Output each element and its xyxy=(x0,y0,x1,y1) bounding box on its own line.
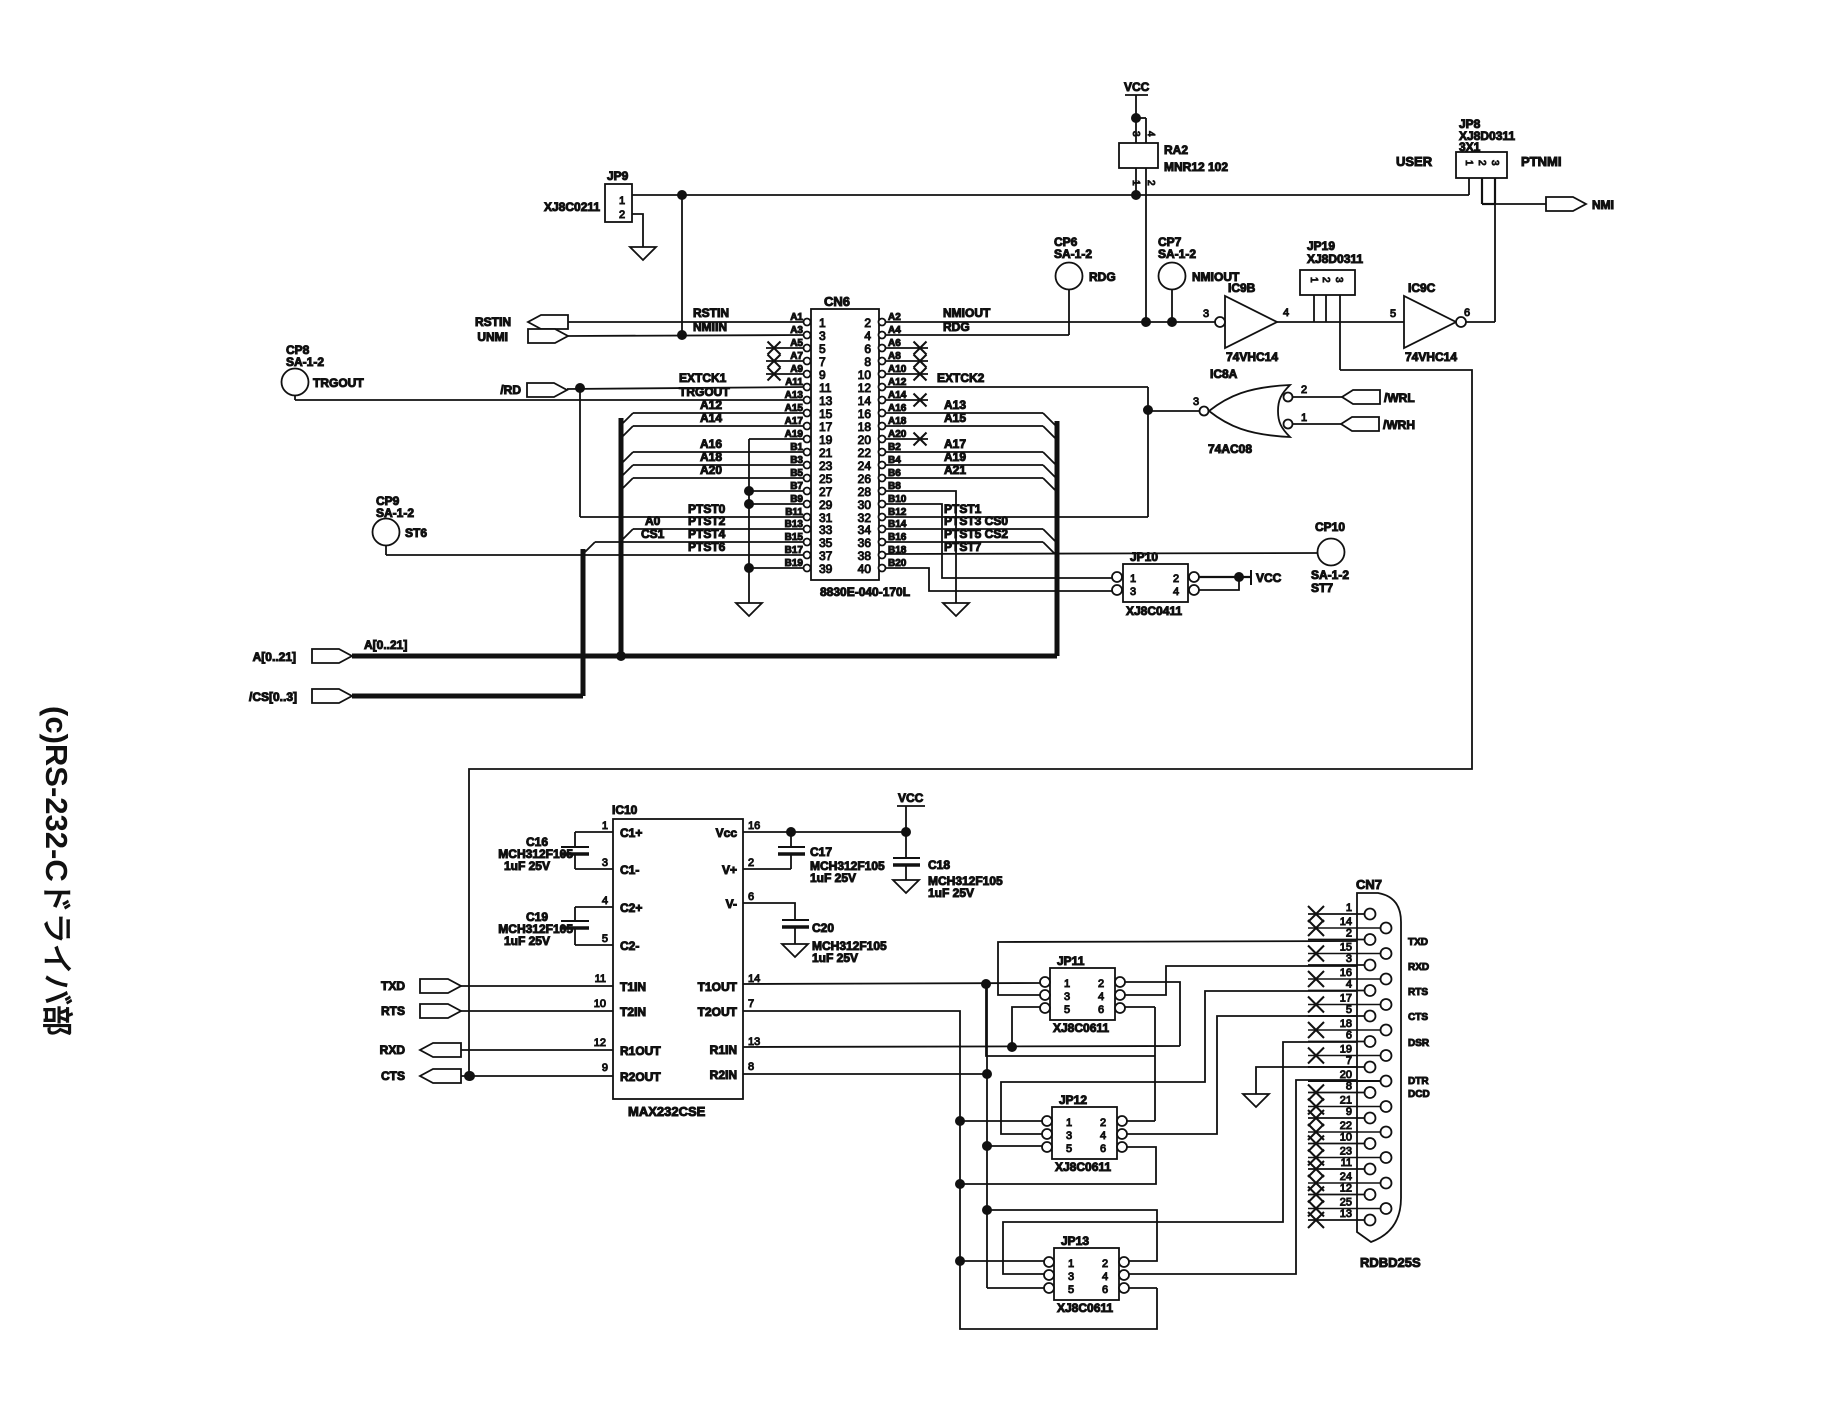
svg-text:3: 3 xyxy=(819,329,826,343)
svg-text:CN6: CN6 xyxy=(824,294,850,309)
svg-text:9: 9 xyxy=(819,368,826,382)
svg-text:NMIIN: NMIIN xyxy=(693,320,727,334)
svg-text:21: 21 xyxy=(819,446,833,460)
svg-text:IC9C: IC9C xyxy=(1408,281,1436,295)
svg-text:CN7: CN7 xyxy=(1356,877,1382,892)
svg-text:A21: A21 xyxy=(944,463,966,477)
svg-text:A15: A15 xyxy=(944,411,966,425)
svg-text:12: 12 xyxy=(594,1037,606,1049)
svg-text:MNR12 102: MNR12 102 xyxy=(1164,160,1228,174)
svg-text:7: 7 xyxy=(819,355,826,369)
svg-text:2: 2 xyxy=(1320,277,1331,283)
svg-text:1: 1 xyxy=(1130,573,1136,585)
svg-text:3: 3 xyxy=(1130,586,1136,598)
svg-text:40: 40 xyxy=(858,562,872,576)
svg-text:RXD: RXD xyxy=(380,1043,406,1057)
svg-text:XJ8C0411: XJ8C0411 xyxy=(1126,604,1182,618)
svg-text:RDG: RDG xyxy=(1089,270,1116,284)
svg-text:R1IN: R1IN xyxy=(710,1043,737,1057)
svg-text:8: 8 xyxy=(1346,1081,1352,1093)
svg-text:2: 2 xyxy=(1346,928,1352,940)
svg-text:6: 6 xyxy=(864,342,871,356)
svg-text:JP13: JP13 xyxy=(1061,1234,1089,1248)
svg-text:3: 3 xyxy=(602,857,608,869)
svg-text:3: 3 xyxy=(1130,131,1141,137)
svg-text:XJ8C0211: XJ8C0211 xyxy=(544,200,600,214)
svg-text:JP12: JP12 xyxy=(1059,1093,1087,1107)
svg-text:A0: A0 xyxy=(645,514,661,528)
svg-text:PTST7: PTST7 xyxy=(944,540,982,554)
svg-text:SA-1-2: SA-1-2 xyxy=(1158,247,1196,261)
svg-text:25: 25 xyxy=(819,472,833,486)
svg-text:1: 1 xyxy=(819,316,826,330)
svg-text:C1-: C1- xyxy=(620,863,639,877)
svg-text:2: 2 xyxy=(619,209,625,221)
svg-text:RA2: RA2 xyxy=(1164,143,1188,157)
svg-text:11: 11 xyxy=(819,381,832,395)
svg-text:20: 20 xyxy=(1340,1069,1352,1081)
svg-text:8: 8 xyxy=(864,355,871,369)
svg-text:5: 5 xyxy=(1068,1284,1074,1296)
svg-text:RXD: RXD xyxy=(1408,962,1429,973)
svg-text:1uF 25V: 1uF 25V xyxy=(810,871,856,885)
svg-text:4: 4 xyxy=(1145,131,1156,137)
svg-text:ST6: ST6 xyxy=(405,526,427,540)
svg-text:13: 13 xyxy=(819,394,833,408)
svg-text:8: 8 xyxy=(748,1061,754,1073)
svg-text:C20: C20 xyxy=(812,921,834,935)
svg-text:25: 25 xyxy=(1340,1197,1352,1209)
svg-text:17: 17 xyxy=(819,420,833,434)
svg-text:9: 9 xyxy=(1346,1106,1352,1118)
svg-text:35: 35 xyxy=(819,536,833,550)
svg-text:6: 6 xyxy=(1102,1284,1108,1296)
svg-text:4: 4 xyxy=(602,895,608,907)
svg-text:33: 33 xyxy=(819,523,833,537)
svg-text:/WRL: /WRL xyxy=(1384,391,1415,405)
svg-text:36: 36 xyxy=(858,536,872,550)
svg-text:XJ8C0611: XJ8C0611 xyxy=(1053,1021,1109,1035)
svg-text:23: 23 xyxy=(819,459,833,473)
svg-text:VCC: VCC xyxy=(1124,80,1150,94)
svg-text:NMI: NMI xyxy=(1592,198,1614,212)
svg-text:3: 3 xyxy=(1066,1130,1072,1142)
svg-text:15: 15 xyxy=(819,407,833,421)
svg-text:10: 10 xyxy=(594,998,606,1010)
svg-text:PTST6: PTST6 xyxy=(688,540,726,554)
svg-text:C17: C17 xyxy=(810,845,832,859)
svg-text:6: 6 xyxy=(748,891,754,903)
svg-text:10: 10 xyxy=(858,368,872,382)
svg-text:24: 24 xyxy=(858,459,872,473)
svg-text:PTST3 CS0: PTST3 CS0 xyxy=(944,514,1008,528)
svg-text:6: 6 xyxy=(1346,1030,1352,1042)
svg-text:4: 4 xyxy=(1102,1271,1108,1283)
svg-text:17: 17 xyxy=(1340,993,1352,1005)
svg-text:CTS: CTS xyxy=(1408,1012,1428,1023)
svg-text:A2: A2 xyxy=(888,312,901,323)
svg-text:T2OUT: T2OUT xyxy=(698,1005,738,1019)
svg-text:TRGOUT: TRGOUT xyxy=(679,385,730,399)
svg-text:26: 26 xyxy=(858,472,872,486)
svg-text:RDBD25S: RDBD25S xyxy=(1360,1255,1421,1270)
svg-text:TXD: TXD xyxy=(1408,937,1428,948)
svg-text:A18: A18 xyxy=(700,450,722,464)
svg-text:/WRH: /WRH xyxy=(1383,418,1415,432)
svg-text:2: 2 xyxy=(1100,1117,1106,1129)
svg-text:C2+: C2+ xyxy=(620,901,642,915)
svg-text:20: 20 xyxy=(858,433,872,447)
svg-text:23: 23 xyxy=(1340,1146,1352,1158)
svg-text:11: 11 xyxy=(1341,1157,1352,1169)
svg-text:3: 3 xyxy=(1064,991,1070,1003)
svg-text:16: 16 xyxy=(858,407,872,421)
svg-text:PTST2: PTST2 xyxy=(688,514,726,528)
svg-text:22: 22 xyxy=(1340,1120,1352,1132)
svg-text:3: 3 xyxy=(1333,277,1344,283)
svg-text:RTS: RTS xyxy=(381,1004,405,1018)
svg-text:74VHC14: 74VHC14 xyxy=(1405,350,1457,364)
svg-text:V+: V+ xyxy=(722,863,737,877)
svg-text:13: 13 xyxy=(1340,1208,1352,1220)
svg-text:CS1: CS1 xyxy=(641,527,665,541)
svg-text:A17: A17 xyxy=(944,437,966,451)
svg-text:3: 3 xyxy=(1489,160,1500,166)
svg-text:VCC: VCC xyxy=(1256,571,1282,585)
svg-text:1: 1 xyxy=(619,195,625,207)
svg-text:19: 19 xyxy=(819,433,833,447)
svg-text:24: 24 xyxy=(1340,1171,1352,1183)
svg-text:SA-1-2: SA-1-2 xyxy=(286,355,324,369)
svg-text:A[0..21]: A[0..21] xyxy=(364,638,407,652)
svg-text:5: 5 xyxy=(1390,308,1396,320)
svg-text:C2-: C2- xyxy=(620,939,639,953)
svg-text:11: 11 xyxy=(595,973,606,985)
svg-text:2: 2 xyxy=(1098,978,1104,990)
svg-text:IC9B: IC9B xyxy=(1228,281,1256,295)
svg-text:1uF 25V: 1uF 25V xyxy=(928,886,974,900)
svg-text:3X1: 3X1 xyxy=(1459,140,1481,154)
svg-text:12: 12 xyxy=(858,381,872,395)
svg-text:T1OUT: T1OUT xyxy=(698,980,738,994)
svg-text:37: 37 xyxy=(819,549,833,563)
svg-text:PTST5 CS2: PTST5 CS2 xyxy=(944,527,1008,541)
svg-text:/CS[0..3]: /CS[0..3] xyxy=(249,690,297,704)
svg-text:4: 4 xyxy=(1173,586,1179,598)
svg-text:38: 38 xyxy=(858,549,872,563)
svg-text:4: 4 xyxy=(864,329,871,343)
svg-text:15: 15 xyxy=(1340,942,1352,954)
svg-text:2: 2 xyxy=(1102,1258,1108,1270)
svg-text:IC10: IC10 xyxy=(612,803,638,817)
svg-text:NMIOUT: NMIOUT xyxy=(943,306,991,320)
svg-text:14: 14 xyxy=(858,394,872,408)
svg-text:3: 3 xyxy=(1203,308,1209,320)
svg-text:74VHC14: 74VHC14 xyxy=(1226,350,1278,364)
svg-text:5: 5 xyxy=(1066,1143,1072,1155)
svg-text:SA-1-2: SA-1-2 xyxy=(376,506,414,520)
svg-text:1: 1 xyxy=(1346,902,1352,914)
svg-text:6: 6 xyxy=(1098,1004,1104,1016)
svg-text:1: 1 xyxy=(1066,1117,1072,1129)
svg-text:XJ8C0611: XJ8C0611 xyxy=(1055,1160,1111,1174)
svg-text:JP19: JP19 xyxy=(1307,239,1335,253)
svg-text:4: 4 xyxy=(1098,991,1104,1003)
svg-text:74AC08: 74AC08 xyxy=(1208,442,1252,456)
svg-text:DSR: DSR xyxy=(1408,1038,1430,1049)
svg-text:VCC: VCC xyxy=(898,791,924,805)
svg-text:18: 18 xyxy=(858,420,872,434)
svg-text:5: 5 xyxy=(1064,1004,1070,1016)
svg-text:7: 7 xyxy=(1346,1055,1352,1067)
svg-text:14: 14 xyxy=(1340,916,1352,928)
svg-text:T2IN: T2IN xyxy=(620,1005,646,1019)
svg-text:2: 2 xyxy=(1476,160,1487,166)
svg-text:2: 2 xyxy=(1301,384,1307,396)
svg-text:T1IN: T1IN xyxy=(620,980,646,994)
svg-text:10: 10 xyxy=(1340,1132,1352,1144)
svg-text:A16: A16 xyxy=(700,437,722,451)
svg-text:29: 29 xyxy=(819,498,833,512)
svg-text:3: 3 xyxy=(1193,396,1199,408)
svg-text:6: 6 xyxy=(1100,1143,1106,1155)
svg-text:/RD: /RD xyxy=(500,383,521,397)
svg-text:2: 2 xyxy=(748,857,754,869)
svg-text:CTS: CTS xyxy=(381,1069,405,1083)
svg-text:DCD: DCD xyxy=(1408,1089,1430,1100)
svg-text:DTR: DTR xyxy=(1408,1076,1429,1087)
svg-text:27: 27 xyxy=(819,485,833,499)
svg-text:XJ8D0311: XJ8D0311 xyxy=(1307,252,1363,266)
svg-text:2: 2 xyxy=(1173,573,1179,585)
svg-text:7: 7 xyxy=(748,998,754,1010)
svg-text:18: 18 xyxy=(1340,1018,1352,1030)
svg-text:A4: A4 xyxy=(888,325,901,336)
svg-text:28: 28 xyxy=(858,485,872,499)
svg-text:4: 4 xyxy=(1283,307,1289,319)
svg-text:RTS: RTS xyxy=(1408,987,1428,998)
svg-text:RDG: RDG xyxy=(943,320,970,334)
svg-text:EXTCK2: EXTCK2 xyxy=(937,371,985,385)
svg-text:1: 1 xyxy=(1308,277,1319,283)
svg-text:R2IN: R2IN xyxy=(710,1068,737,1082)
svg-text:JP11: JP11 xyxy=(1057,954,1085,968)
svg-text:JP9: JP9 xyxy=(607,169,629,183)
svg-text:A20: A20 xyxy=(700,463,722,477)
svg-text:2: 2 xyxy=(864,316,871,330)
svg-text:12: 12 xyxy=(1340,1183,1352,1195)
svg-text:16: 16 xyxy=(1340,967,1352,979)
svg-text:21: 21 xyxy=(1340,1095,1352,1107)
svg-text:A12: A12 xyxy=(700,398,722,412)
svg-text:IC8A: IC8A xyxy=(1210,367,1238,381)
svg-text:3: 3 xyxy=(1068,1271,1074,1283)
svg-text:CP10: CP10 xyxy=(1315,520,1345,534)
svg-text:1: 1 xyxy=(1463,160,1474,166)
svg-text:1uF 25V: 1uF 25V xyxy=(504,934,550,948)
svg-text:TXD: TXD xyxy=(381,979,405,993)
svg-text:9: 9 xyxy=(602,1062,608,1074)
svg-text:MAX232CSE: MAX232CSE xyxy=(628,1104,706,1119)
svg-text:SA-1-2: SA-1-2 xyxy=(1054,247,1092,261)
svg-text:A19: A19 xyxy=(944,450,966,464)
svg-text:1: 1 xyxy=(1301,412,1307,424)
svg-text:A13: A13 xyxy=(944,398,966,412)
svg-text:22: 22 xyxy=(858,446,872,460)
svg-text:39: 39 xyxy=(819,562,833,576)
svg-text:RSTIN: RSTIN xyxy=(693,306,729,320)
svg-text:C1+: C1+ xyxy=(620,826,642,840)
svg-text:16: 16 xyxy=(748,820,760,832)
svg-text:R1OUT: R1OUT xyxy=(620,1044,661,1058)
svg-text:8830E-040-170L: 8830E-040-170L xyxy=(820,585,910,599)
svg-text:5: 5 xyxy=(1346,1004,1352,1016)
svg-text:1: 1 xyxy=(1068,1258,1074,1270)
svg-text:UNMI: UNMI xyxy=(477,330,508,344)
svg-text:JP10: JP10 xyxy=(1130,550,1158,564)
svg-text:PTNMI: PTNMI xyxy=(1521,154,1561,169)
svg-text:1: 1 xyxy=(602,820,608,832)
svg-text:EXTCK1: EXTCK1 xyxy=(679,371,727,385)
svg-text:RSTIN: RSTIN xyxy=(475,315,511,329)
svg-text:3: 3 xyxy=(1346,953,1352,965)
svg-text:4: 4 xyxy=(1100,1130,1106,1142)
svg-text:TRGOUT: TRGOUT xyxy=(313,376,364,390)
svg-text:A14: A14 xyxy=(700,411,722,425)
svg-text:V-: V- xyxy=(726,897,737,911)
svg-text:1uF 25V: 1uF 25V xyxy=(812,951,858,965)
svg-text:ST7: ST7 xyxy=(1311,581,1333,595)
svg-text:C18: C18 xyxy=(928,858,950,872)
svg-text:Vcc: Vcc xyxy=(716,826,738,840)
svg-text:19: 19 xyxy=(1340,1044,1352,1056)
svg-text:4: 4 xyxy=(1346,979,1352,991)
svg-text:USER: USER xyxy=(1396,154,1433,169)
svg-text:6: 6 xyxy=(1464,307,1470,319)
svg-text:5: 5 xyxy=(819,342,826,356)
svg-text:R2OUT: R2OUT xyxy=(620,1070,661,1084)
svg-text:30: 30 xyxy=(858,498,872,512)
svg-text:5: 5 xyxy=(602,933,608,945)
svg-text:34: 34 xyxy=(858,523,872,537)
svg-text:A[0..21]: A[0..21] xyxy=(253,650,296,664)
svg-text:SA-1-2: SA-1-2 xyxy=(1311,568,1349,582)
svg-text:1: 1 xyxy=(1064,978,1070,990)
svg-text:XJ8C0611: XJ8C0611 xyxy=(1057,1301,1113,1315)
svg-text:1uF 25V: 1uF 25V xyxy=(504,859,550,873)
svg-text:PTST4: PTST4 xyxy=(688,527,726,541)
